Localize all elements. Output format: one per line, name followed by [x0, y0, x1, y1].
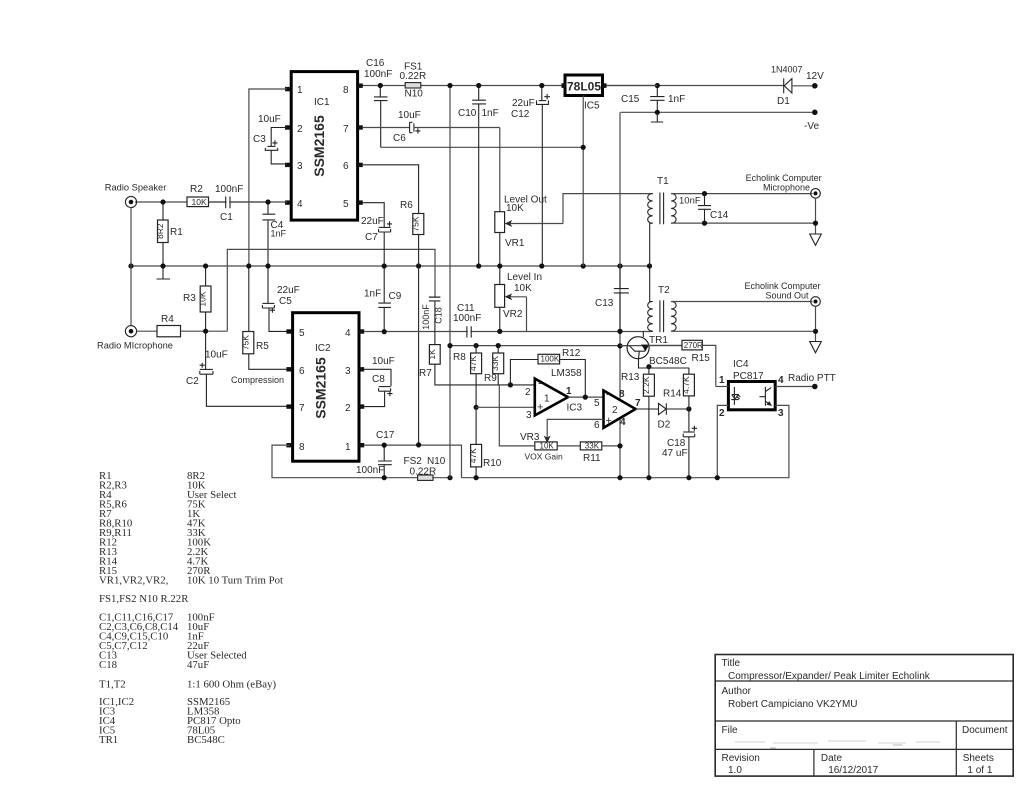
- wire T2 sec bottom: [671, 330, 815, 332]
- capacitor C6 10uF: [393, 110, 500, 144]
- capacitor C2 10uF: [186, 334, 290, 407]
- svg-text:R4: R4: [161, 314, 174, 325]
- svg-text:7: 7: [635, 398, 641, 409]
- svg-text:4: 4: [778, 375, 784, 386]
- resistor R8 47K: [453, 346, 482, 408]
- svg-text:8: 8: [299, 442, 305, 453]
- svg-text:VR2: VR2: [503, 309, 523, 320]
- pin 8 IC2: [286, 442, 305, 453]
- svg-text:78L05: 78L05: [567, 80, 601, 94]
- node pin4 C9 junction: [382, 329, 387, 334]
- svg-text:C18: C18: [99, 659, 117, 671]
- regulator IC5 78L05: [562, 75, 607, 112]
- connector Radio Microphone: [97, 326, 173, 351]
- wire -Ve line: [621, 111, 812, 113]
- svg-text:1nF: 1nF: [482, 108, 499, 119]
- svg-text:File: File: [722, 725, 739, 736]
- svg-text:2: 2: [525, 387, 531, 398]
- pin 4 IC2: [345, 328, 364, 339]
- svg-text:VOX Gain: VOX Gain: [525, 452, 564, 462]
- svg-text:3: 3: [526, 410, 532, 421]
- capacitor C3 10uF: [253, 114, 287, 164]
- svg-text:1: 1: [566, 386, 572, 397]
- svg-text:1nF: 1nF: [271, 229, 287, 239]
- node D2 R14 junction: [686, 406, 691, 411]
- node rail junction C12: [539, 83, 544, 88]
- capacitor C14 10nF: [679, 194, 729, 224]
- svg-text:22uF: 22uF: [277, 285, 300, 296]
- svg-text:10uF: 10uF: [258, 114, 281, 125]
- node bus x384: [382, 263, 387, 268]
- svg-text:0.22R: 0.22R: [400, 71, 427, 82]
- svg-text:SSM2165: SSM2165: [311, 115, 327, 177]
- capacitor C1 100nF: [209, 184, 266, 223]
- svg-text:BC548C: BC548C: [649, 356, 687, 367]
- node bottom rail x689: [686, 475, 691, 480]
- resistor R15 270R: [682, 340, 716, 386]
- node bus x500: [497, 263, 502, 268]
- svg-text:IC1: IC1: [314, 97, 330, 108]
- node bus x542: [539, 263, 544, 268]
- svg-text:2.2K: 2.2K: [641, 376, 651, 394]
- svg-text:100nF: 100nF: [215, 184, 243, 195]
- node mic gnd junction: [813, 221, 818, 226]
- pin 6 IC1: [343, 161, 363, 172]
- wire opamp A out: [568, 396, 604, 398]
- capacitor C12 22uF: [511, 88, 550, 264]
- node bottom rail x717: [715, 475, 720, 480]
- capacitor C16 100nF: [364, 58, 392, 147]
- node rail junction B: [476, 83, 481, 88]
- node bus x479: [476, 263, 481, 268]
- node bus x583: [581, 263, 586, 268]
- node VR2 bottom junction: [497, 329, 502, 334]
- svg-text:C2: C2: [186, 376, 199, 387]
- svg-text:Radio MIcrophone: Radio MIcrophone: [97, 341, 173, 351]
- potentiometer VR2 Level In 10K: [495, 269, 542, 332]
- wire T2 sec top: [671, 301, 812, 303]
- svg-text:10uF: 10uF: [205, 350, 228, 361]
- node R8 R10 junction: [474, 405, 479, 410]
- op-amp IC2 SSM2165 body: [293, 313, 359, 462]
- svg-text:+: +: [537, 402, 543, 414]
- svg-text:100nF: 100nF: [364, 69, 392, 80]
- svg-text:C13: C13: [595, 298, 614, 309]
- resistor R1 8R2: [155, 204, 183, 264]
- svg-text:6: 6: [343, 161, 349, 172]
- svg-text:Author: Author: [722, 686, 752, 697]
- node mid rail x476: [474, 343, 479, 348]
- node bus x620: [617, 263, 622, 268]
- svg-text:4: 4: [345, 328, 351, 339]
- potentiometer VR3 10K VOX Gain: [520, 432, 563, 462]
- node R13 junction: [646, 364, 651, 369]
- svg-text:0.22R: 0.22R: [410, 467, 437, 478]
- node bus x649: [647, 263, 652, 268]
- ground triangle soundout: [810, 342, 822, 353]
- node R3 R4 junction: [203, 329, 208, 334]
- resistor R7 1K: [419, 345, 535, 385]
- wire IC1 pin7 row: [363, 127, 409, 129]
- capacitor C11 100nF: [453, 303, 481, 338]
- svg-text:C14: C14: [710, 210, 729, 221]
- node C15 -Ve junction: [655, 110, 660, 115]
- svg-text:Sheets: Sheets: [963, 753, 994, 764]
- diode D2: [658, 403, 689, 430]
- svg-text:1.0: 1.0: [728, 765, 742, 776]
- pin 7 IC1: [343, 124, 363, 135]
- svg-text:-: -: [538, 378, 542, 390]
- pin 7 IC2: [286, 403, 305, 414]
- node mid rail x498: [496, 343, 501, 348]
- svg-text:R13: R13: [621, 372, 640, 383]
- svg-text:D2: D2: [658, 420, 671, 431]
- opto IC4 PC817: [719, 359, 784, 419]
- resistor R11 33K: [557, 441, 620, 464]
- svg-text:LM358: LM358: [551, 368, 582, 379]
- node bottom rail x649: [646, 475, 651, 480]
- svg-text:C15: C15: [621, 94, 640, 105]
- svg-text:47uF: 47uF: [187, 659, 209, 671]
- node bottom rail x620: [617, 475, 622, 480]
- svg-text:100nF: 100nF: [356, 465, 384, 476]
- pin 4 IC1: [285, 199, 303, 210]
- svg-text:47K: 47K: [468, 356, 478, 371]
- svg-text:6: 6: [299, 366, 305, 377]
- svg-text:10nF: 10nF: [679, 196, 701, 207]
- svg-text:Revision: Revision: [722, 753, 760, 764]
- svg-text:C8: C8: [372, 374, 385, 385]
- svg-text:Radio Speaker: Radio Speaker: [105, 183, 167, 193]
- svg-text:R6: R6: [400, 200, 413, 211]
- ground stub below C15: [651, 115, 663, 122]
- resistor R4: [137, 314, 228, 337]
- svg-text:VR3: VR3: [520, 432, 540, 443]
- node 12V terminal: [806, 71, 824, 89]
- wire VR3 left to R9 riser: [499, 385, 535, 446]
- svg-text:100nF: 100nF: [453, 313, 481, 324]
- svg-text:C9: C9: [389, 291, 402, 302]
- svg-text:PC817: PC817: [733, 371, 764, 382]
- transistor TR1 BC548C: [620, 331, 689, 374]
- svg-text:+: +: [606, 415, 612, 427]
- node R11 x620 junction: [617, 443, 622, 448]
- node bus x248: [246, 263, 251, 268]
- wire IC4 pin4 to Radio PTT: [775, 386, 812, 388]
- svg-text:Echolink Computer: Echolink Computer: [746, 173, 822, 183]
- svg-text:Echolink Computer: Echolink Computer: [745, 281, 821, 291]
- pin 6 IC2: [286, 366, 305, 377]
- svg-text:1nF: 1nF: [364, 289, 381, 300]
- wire IC1 pin4 row: [135, 201, 287, 203]
- capacitor C5 22uF: [262, 269, 299, 332]
- pin 3 IC2: [345, 366, 364, 377]
- svg-text:R10: R10: [483, 458, 502, 469]
- svg-text:3: 3: [297, 161, 303, 172]
- svg-text:75K: 75K: [410, 216, 420, 231]
- svg-text:7: 7: [299, 403, 305, 414]
- capacitor C7 22uF: [361, 203, 392, 264]
- wire top +12V rail: [361, 85, 784, 87]
- wire TR1 emitter to R15: [648, 344, 683, 346]
- resistor R12 100K feedback: [510, 348, 585, 395]
- svg-text:R8: R8: [453, 352, 466, 363]
- node bottom rail x476: [474, 475, 479, 480]
- svg-text:8: 8: [619, 389, 625, 400]
- svg-text:5: 5: [594, 398, 600, 409]
- svg-text:VR1,VR2,VR2,: VR1,VR2,VR2,: [99, 575, 169, 587]
- svg-text:Robert Campiciano VK2YMU: Robert Campiciano VK2YMU: [728, 699, 858, 710]
- svg-text:R15: R15: [692, 353, 711, 364]
- svg-text:270R: 270R: [684, 341, 703, 350]
- svg-text:Sound Out: Sound Out: [766, 291, 810, 301]
- svg-text:C6: C6: [393, 133, 406, 144]
- svg-text:1: 1: [719, 375, 725, 386]
- wire IC2 pin4 row: [364, 331, 653, 333]
- resistor R2 10K: [187, 184, 209, 207]
- pin 5 IC2: [286, 328, 305, 339]
- svg-text:SSM2165: SSM2165: [313, 357, 329, 419]
- svg-text:C5: C5: [279, 296, 292, 307]
- wire mic row riser to R7 feed: [227, 249, 435, 331]
- svg-text:2: 2: [345, 403, 351, 414]
- node TR1 T2 junction: [617, 329, 622, 334]
- pin 3 IC1: [285, 161, 303, 172]
- svg-text:N10: N10: [405, 89, 424, 100]
- wire soundout connector down: [815, 307, 817, 342]
- connector Echolink Computer Sound Out: [745, 281, 821, 306]
- transformer T2: [648, 266, 676, 332]
- wire 5V feed row y147: [381, 146, 584, 148]
- wire IC4 pin2: [717, 405, 728, 477]
- wire long vertical x450: [449, 88, 451, 478]
- svg-text:IC3: IC3: [567, 403, 583, 414]
- svg-text:100K: 100K: [541, 355, 560, 364]
- node -Ve terminal: [804, 110, 819, 133]
- svg-text:47K: 47K: [468, 448, 478, 463]
- svg-text:Document: Document: [962, 725, 1008, 736]
- svg-text:75K: 75K: [240, 335, 250, 350]
- wire opamp B out: [636, 408, 659, 410]
- wire IC2 pin1 row: [364, 445, 462, 478]
- wire bottom rail: [462, 477, 718, 479]
- capacitor C9 1nF: [364, 269, 402, 332]
- svg-text:R14: R14: [663, 389, 682, 400]
- svg-text:10K 10 Turn Trim Pot: 10K 10 Turn Trim Pot: [187, 575, 283, 587]
- pin 2 IC1: [285, 124, 303, 135]
- svg-text:C12: C12: [511, 109, 530, 120]
- node bus x268: [265, 263, 270, 268]
- wire IC4 pin3: [717, 405, 789, 477]
- svg-text:10uF: 10uF: [372, 356, 395, 367]
- svg-text:1: 1: [345, 442, 351, 453]
- wire rail to C15: [607, 85, 658, 87]
- svg-text:3: 3: [778, 408, 784, 419]
- svg-text:10K: 10K: [540, 441, 555, 450]
- wire VR1 wiper to T1: [563, 194, 653, 224]
- svg-text:Title: Title: [722, 658, 741, 669]
- resistor R10 47K: [468, 407, 502, 477]
- svg-text:1N4007: 1N4007: [771, 65, 803, 75]
- svg-text:R11: R11: [583, 453, 601, 464]
- svg-text:C17: C17: [376, 430, 395, 441]
- svg-text:1 of 1: 1 of 1: [967, 765, 992, 776]
- svg-text:C7: C7: [365, 232, 378, 243]
- node C4 junction: [265, 199, 270, 204]
- node opamp out R12: [583, 395, 588, 400]
- node C17 junction: [382, 443, 387, 448]
- node rail junction C15: [655, 83, 660, 88]
- svg-text:C10: C10: [458, 108, 477, 119]
- svg-text:R1: R1: [170, 227, 183, 238]
- svg-text:R9: R9: [484, 373, 497, 384]
- svg-text:R7: R7: [419, 368, 432, 379]
- connector Echolink Computer Microphone: [746, 173, 822, 198]
- svg-text:TR1: TR1: [649, 335, 668, 346]
- svg-text:-Ve: -Ve: [804, 121, 819, 132]
- svg-text:TR1: TR1: [99, 734, 118, 746]
- wire T1 sec top: [671, 193, 812, 195]
- svg-text:6: 6: [594, 420, 600, 431]
- node R6 bottom junction: [416, 442, 421, 447]
- svg-text:4: 4: [620, 417, 626, 428]
- capacitor C13: [595, 269, 629, 332]
- svg-text:10K: 10K: [514, 283, 532, 294]
- op-amp IC3 B LM358: [567, 389, 642, 432]
- node bottom rail x384: [382, 475, 387, 480]
- capacitor C17 100nF: [356, 430, 395, 478]
- svg-text:FS1,FS2 N10 R.22R: FS1,FS2 N10 R.22R: [99, 593, 189, 605]
- svg-text:T1: T1: [657, 176, 669, 187]
- node pin8 C16 junction: [378, 83, 383, 88]
- fuse FS1 0.22R N10: [400, 62, 427, 100]
- node 5V junction y147: [581, 145, 586, 150]
- resistor R9 33K: [484, 346, 504, 385]
- resistor R5 75K Compression: [231, 269, 290, 386]
- svg-text:Microphone: Microphone: [763, 183, 810, 193]
- svg-text:12V: 12V: [806, 71, 824, 82]
- svg-text:5: 5: [343, 199, 349, 210]
- svg-text:C1: C1: [220, 212, 233, 223]
- svg-text:4.7K: 4.7K: [681, 376, 691, 394]
- node bottom rail x450: [447, 475, 452, 480]
- svg-text:7: 7: [343, 124, 349, 135]
- svg-text:C3: C3: [253, 134, 266, 145]
- node mid rail x619: [617, 343, 622, 348]
- wire mid rail: [450, 345, 628, 347]
- wire ground bus: [131, 265, 650, 267]
- svg-text:IC4: IC4: [733, 359, 749, 370]
- svg-text:C18: C18: [434, 307, 444, 324]
- svg-text:10K: 10K: [198, 291, 208, 306]
- capacitor C10 1nF: [458, 88, 499, 264]
- svg-text:22uF: 22uF: [512, 98, 535, 109]
- pin 1 IC1: [285, 85, 303, 96]
- svg-text:8R2: 8R2: [155, 223, 165, 239]
- wire mic connector down: [815, 199, 817, 234]
- svg-text:33K: 33K: [490, 356, 500, 371]
- node C13 T2 junction: [617, 329, 622, 334]
- svg-text:R5: R5: [256, 341, 269, 352]
- svg-text:1K: 1K: [427, 349, 437, 360]
- svg-text:IC2: IC2: [315, 343, 331, 354]
- svg-text:33K: 33K: [585, 441, 600, 450]
- svg-text:3: 3: [345, 366, 351, 377]
- svg-text:Radio PTT: Radio PTT: [788, 373, 836, 384]
- potentiometer VR1 Level Out 10K: [495, 195, 563, 265]
- resistor R14 4.7K: [663, 374, 694, 409]
- node C14 bottom junction: [702, 221, 707, 226]
- capacitor C18 47uF: [662, 409, 697, 478]
- node mid rail x450: [447, 343, 452, 348]
- wire IC4 pin1: [716, 386, 729, 388]
- svg-text:T1,T2: T1,T2: [99, 679, 126, 691]
- capacitor C8 10uF: [364, 356, 395, 407]
- svg-text:VR1: VR1: [505, 238, 525, 249]
- wire speaker to mic vertical: [130, 208, 132, 326]
- svg-text:47 uF: 47 uF: [662, 448, 688, 459]
- svg-text:Date: Date: [821, 753, 843, 764]
- op-amp IC1 SSM2165 body: [291, 72, 357, 221]
- pin 5 IC1: [343, 199, 363, 210]
- node bus x163: [160, 263, 165, 268]
- fuse FS2 0.22R N10: [404, 456, 446, 480]
- svg-text:C16: C16: [366, 58, 385, 69]
- svg-text:8: 8: [343, 85, 349, 96]
- svg-text:IC5: IC5: [584, 101, 600, 112]
- svg-text:4: 4: [297, 199, 303, 210]
- svg-text:1: 1: [297, 85, 303, 96]
- pin 1 IC2: [345, 442, 364, 453]
- svg-text:-: -: [606, 389, 610, 401]
- diode D1 1N4007: [771, 65, 813, 108]
- node bus x205: [203, 263, 208, 268]
- node op-amp pin2 node: [508, 382, 513, 387]
- transformer T1: [648, 176, 676, 266]
- node R1 junction: [160, 199, 165, 204]
- svg-text:Level In: Level In: [507, 272, 542, 283]
- wire pin7 feed down to VR1: [499, 128, 501, 212]
- resistor R6 75K: [363, 165, 424, 445]
- svg-text:100nF: 100nF: [421, 304, 431, 330]
- svg-text:R3: R3: [183, 293, 196, 304]
- capacitor C18 100nF rotated labels: [421, 297, 444, 345]
- wire -Ve drop x620: [619, 112, 621, 477]
- wire opamp B pin6 row: [547, 419, 603, 437]
- resistor R3 10K: [183, 269, 211, 330]
- capacitor C15 1nF: [621, 88, 685, 112]
- pin 8 IC1: [343, 84, 363, 97]
- node bus x418: [416, 263, 421, 268]
- ground bar: [157, 269, 171, 280]
- svg-text:Compressor/Expander/ Peak Limi: Compressor/Expander/ Peak Limiter Echoli…: [728, 671, 931, 682]
- svg-text:FS2: FS2: [404, 456, 423, 467]
- svg-text:16/12/2017: 16/12/2017: [828, 765, 878, 776]
- wire IC2 pin8 loop: [272, 445, 450, 478]
- svg-text:2: 2: [297, 124, 303, 135]
- wire 78L05 out down: [582, 96, 584, 267]
- svg-text:2: 2: [612, 405, 618, 416]
- svg-text:BC548C: BC548C: [187, 734, 225, 746]
- pin 2 IC2: [345, 403, 364, 414]
- svg-text:2: 2: [719, 408, 725, 419]
- node rail junction A: [447, 83, 452, 88]
- node C14 top junction: [702, 191, 707, 196]
- op-amp IC3 A LM358: [525, 368, 582, 421]
- node soundout gnd junction: [813, 329, 818, 334]
- svg-text:N10: N10: [427, 456, 446, 467]
- ground triangle mic: [810, 234, 822, 245]
